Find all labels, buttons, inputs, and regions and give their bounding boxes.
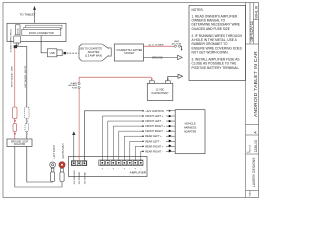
svg-text:DOCK: DOCK — [18, 28, 20, 34]
notes text — [192, 8, 243, 70]
svg-text:+12V IGNITION: +12V IGNITION — [145, 109, 164, 113]
svg-text:AMPLIFIER: AMPLIFIER — [130, 171, 147, 175]
wire isolator left output to right rca input — [15, 147, 62, 188]
wire speaker 3 front right + — [113, 126, 143, 161]
amplifier power terminal block — [71, 161, 87, 166]
svg-text:12V GROUND: 12V GROUND — [74, 170, 76, 185]
svg-text:FRONT LEFT +: FRONT LEFT + — [145, 114, 164, 118]
svg-text:12V POWER: 12V POWER — [79, 171, 81, 184]
battery positive terminal — [149, 81, 154, 84]
harness wire labels — [145, 109, 165, 154]
svg-text:RIGHT AUDIO - RED: RIGHT AUDIO - RED — [10, 66, 13, 87]
wire speaker 5 rear left + — [124, 136, 143, 161]
svg-text:FUSE: FUSE — [72, 87, 78, 89]
svg-text:LAVERY DESIGNS: LAVERY DESIGNS — [252, 157, 256, 187]
rca inline connector on red wire — [13, 107, 17, 134]
svg-text:GROUND: GROUND — [152, 56, 163, 59]
svg-text:AGC FUSE: AGC FUSE — [172, 42, 182, 45]
svg-text:REAR LEFT -: REAR LEFT - — [145, 139, 161, 143]
rca left input plug — [50, 162, 56, 182]
terminal 12v ground — [72, 161, 76, 165]
wire fused 12v stub with arrow — [181, 46, 183, 51]
svg-text:DOCK CONNECTOR: DOCK CONNECTOR — [29, 31, 54, 35]
border frame — [3, 3, 259, 198]
svg-text:NOTES:: NOTES: — [192, 8, 204, 12]
usb to cigarette adapter plug body — [79, 44, 111, 61]
rca inline connector on white wire — [25, 107, 29, 134]
junction dots at harness labels — [142, 110, 144, 152]
wire isolator right output to left rca input — [27, 147, 53, 183]
usb plug box — [47, 49, 57, 57]
speaker terminal polarity marks — [102, 168, 142, 171]
wire right audio takeoff — [17, 47, 27, 139]
wire speaker 8 rear right - — [141, 151, 143, 160]
notes box — [189, 6, 246, 81]
stereo plug jack housing — [16, 25, 21, 35]
svg-text:3.5 MM STEREO PLUG: 3.5 MM STEREO PLUG — [11, 29, 13, 53]
svg-text:POSITIVE BATTERY TERMINAL.: POSITIVE BATTERY TERMINAL. — [192, 66, 240, 70]
svg-text:ISOLATOR: ISOLATOR — [14, 143, 26, 146]
svg-text:FRONT RIGHT -: FRONT RIGHT - — [145, 129, 164, 133]
speaker terminals 1-8 — [100, 161, 143, 165]
svg-text:REAR RIGHT -: REAR RIGHT - — [145, 149, 163, 153]
fuse F2 amplifier fuse — [78, 82, 80, 88]
dock connector box — [22, 29, 61, 35]
svg-text:FRONT LEFT -: FRONT LEFT - — [145, 119, 163, 123]
title block strip — [246, 3, 259, 198]
svg-text:ANDROID TABLET IN CAR: ANDROID TABLET IN CAR — [253, 51, 259, 117]
wire battery positive (red) — [79, 77, 153, 80]
wire arrow to tablet — [33, 6, 36, 24]
svg-text:REAR LEFT +: REAR LEFT + — [145, 134, 162, 138]
svg-text:ADAPTER: ADAPTER — [184, 130, 196, 134]
svg-text:RIGHT INPUT: RIGHT INPUT — [62, 143, 65, 159]
svg-text:USB: USB — [50, 52, 55, 55]
wire amp ground riser with chassis arrow — [72, 131, 75, 160]
svg-text:SCALE: SCALE — [249, 190, 252, 197]
dashed mating wire to adapter — [67, 52, 79, 54]
svg-text:REAR RIGHT +: REAR RIGHT + — [145, 144, 164, 148]
dock assembly outer box — [7, 23, 66, 41]
harness connection arrows — [166, 110, 175, 153]
svg-text:USB TO CIGARETTE: USB TO CIGARETTE — [79, 47, 103, 50]
svg-text:WHL III: WHL III — [254, 6, 259, 19]
terminal 12v signal — [83, 161, 87, 165]
svg-text:FRONT RIGHT +: FRONT RIGHT + — [145, 124, 165, 128]
wire amp remote signal riser — [84, 111, 142, 161]
svg-text:VEHICLE: VEHICLE — [185, 122, 196, 126]
wire dock connector to usb plug — [41, 36, 47, 53]
wire speaker 1 front left + — [102, 116, 143, 161]
stereo plug neck — [16, 43, 18, 45]
svg-text:12V SIGNAL: 12V SIGNAL — [84, 171, 87, 184]
svg-text:CAR BATTERY: CAR BATTERY — [151, 92, 169, 95]
terminal 12v power — [77, 161, 81, 165]
wire amp 12v power riser (red) — [78, 89, 80, 161]
wire left audio (red) — [14, 48, 16, 139]
tablet cascade rectangle back — [26, 25, 63, 28]
svg-text:HARNESS: HARNESS — [184, 126, 197, 130]
amplifier speaker terminal block — [99, 160, 143, 166]
wire +12v power (red) from socket — [144, 45, 175, 47]
ground loop isolator box — [7, 139, 32, 147]
chassis ground arrow (hollow) — [178, 55, 183, 59]
stereo plug body — [14, 36, 21, 43]
svg-text:12 VDC: 12 VDC — [156, 89, 165, 92]
svg-text:+12 V+ POWER: +12 V+ POWER — [148, 44, 164, 46]
svg-text:GUAGES AND FUSE SIZE: GUAGES AND FUSE SIZE — [192, 27, 230, 31]
svg-text:DWG NO: DWG NO — [250, 144, 252, 152]
svg-text:(2.5 AMP MAX): (2.5 AMP MAX) — [85, 54, 102, 57]
svg-text:SOCKET: SOCKET — [124, 52, 135, 55]
svg-text:LEFT INPUT: LEFT INPUT — [53, 144, 56, 158]
vehicle harness adapter box — [175, 110, 205, 154]
svg-text:TO TABLET: TO TABLET — [20, 13, 36, 17]
rca right input plug (red) — [59, 162, 65, 182]
svg-text:1236-03: 1236-03 — [254, 140, 258, 153]
wire speaker 6 rear left - — [130, 141, 143, 160]
cigarette lighter socket box — [114, 44, 143, 61]
usb connector nub (filled) — [64, 52, 67, 54]
wire battery negative to chassis ground — [167, 76, 178, 81]
tablet cascade rectangle middle — [24, 27, 61, 30]
wire ground from socket — [144, 57, 178, 59]
battery negative terminal — [165, 81, 170, 84]
fuse F1 1 amp — [174, 45, 180, 47]
chassis ground arrow battery (hollow) — [178, 74, 183, 78]
wire speaker 7 rear right + — [135, 146, 143, 160]
wire speaker 4 front right - — [119, 131, 143, 161]
svg-text:LEFT AUDIO - WHITE: LEFT AUDIO - WHITE — [24, 65, 27, 87]
usb plug shell — [57, 50, 62, 56]
amplifier box — [69, 157, 148, 177]
svg-text:08-NOV-11: 08-NOV-11 — [249, 20, 254, 41]
battery 12 vdc box — [147, 83, 173, 100]
svg-text:NOT GET WORN DOWN.: NOT GET WORN DOWN. — [192, 50, 229, 54]
stereo plug connector (filled) — [14, 45, 17, 48]
svg-text:GROUND LOOP: GROUND LOOP — [11, 141, 29, 143]
wire speaker 2 front left - — [108, 121, 143, 161]
